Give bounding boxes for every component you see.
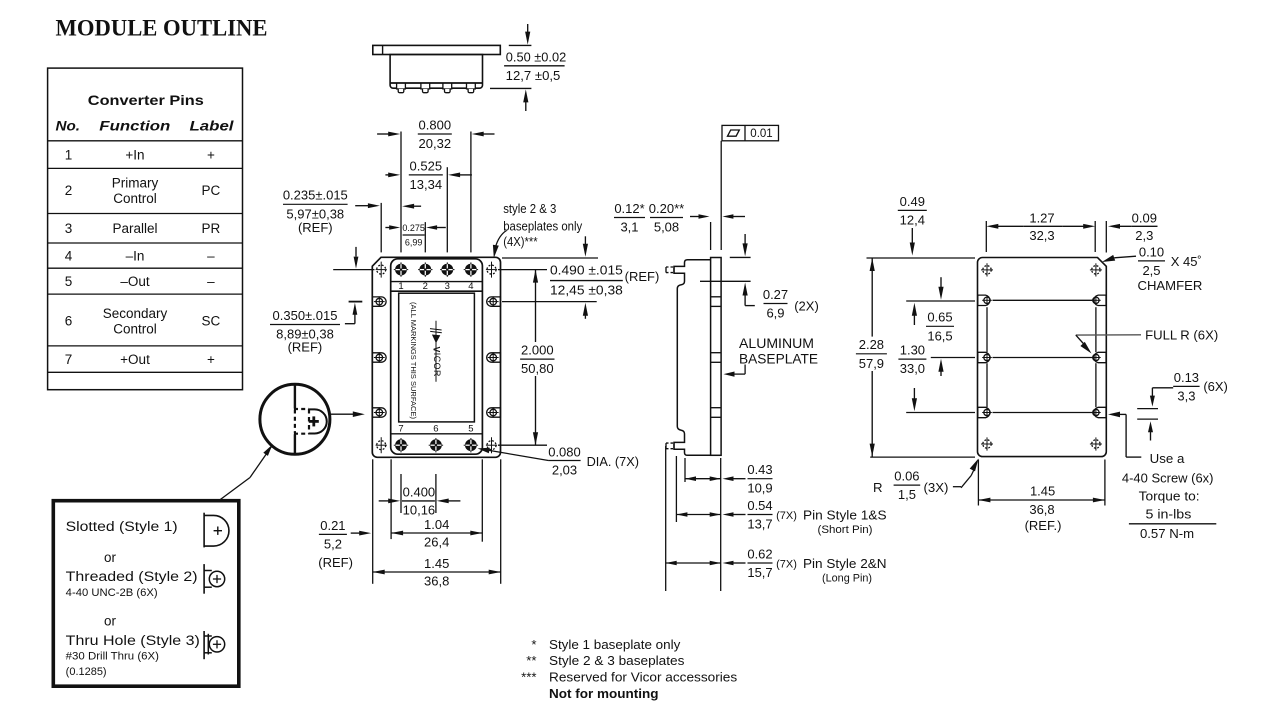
svg-text:(4X)***: (4X)*** [503,234,538,249]
dimension 0.62/15,7 long pin length [666,546,773,580]
svg-text:16,5: 16,5 [927,328,952,343]
svg-text:–In: –In [126,248,145,263]
svg-text:Style 2 & 3 baseplates: Style 2 & 3 baseplates [549,653,685,668]
svg-text:SC: SC [202,314,221,329]
threaded style icon [204,564,225,594]
dimension 1.45/36,8 flange width [373,556,501,589]
svg-text:0.49: 0.49 [900,194,925,209]
plate slot left row3 [978,407,992,417]
svg-text:1.27: 1.27 [1029,211,1054,226]
svg-text:5,08: 5,08 [654,220,679,235]
witness lines above plate [986,221,1106,253]
svg-text:0.490 ±.015: 0.490 ±.015 [550,262,623,277]
label text ALL MARKINGS THIS SURFACE [409,302,416,419]
top profile view module body [390,55,482,89]
footnote ** style 2 & 3 baseplates [526,653,685,668]
svg-text:–: – [207,248,215,263]
svg-text:CHAMFER: CHAMFER [1138,278,1203,293]
svg-text:6: 6 [433,423,438,434]
svg-text:ALUMINUM: ALUMINUM [739,336,814,351]
svg-text:5: 5 [65,274,73,289]
datum extension line from flatness frame [720,141,722,250]
svg-text:(Long Pin): (Long Pin) [822,572,872,584]
svg-text:BASEPLATE: BASEPLATE [739,351,818,366]
svg-text:13,34: 13,34 [410,177,443,192]
front view module body outline [391,259,483,454]
svg-text:PR: PR [202,221,221,236]
dimension 1.30/33,0 slot row span [898,303,926,412]
front view flange plate outline [372,257,500,457]
dimension 0.21/5,2 (REF) [318,518,371,570]
dimension 0.65/16,5 slot row pitch [926,277,954,376]
svg-text:0.43: 0.43 [747,462,772,477]
svg-text:3: 3 [65,221,73,236]
mounting slot left row1 [372,296,386,306]
svg-text:50,80: 50,80 [521,361,554,376]
dimension 0.350 +/-.015 (REF) [270,302,362,355]
svg-text:R: R [873,480,883,495]
pin 2 [418,262,432,276]
svg-text:or: or [104,550,116,565]
svg-text:+Out: +Out [120,352,150,367]
svg-text:(REF): (REF) [298,220,333,235]
svg-text:0.080: 0.080 [548,444,581,459]
svg-text:0.01: 0.01 [750,128,772,140]
dimension 0.490 +/-.015 (REF) [502,236,659,318]
svg-text:5 in-lbs: 5 in-lbs [1146,507,1192,522]
corner mounting hole bottom-right (style 2&3) [486,437,497,453]
svg-text:0.21: 0.21 [320,518,345,533]
leader arrow from style box to detail circle [219,445,273,501]
mounting slot right row2 [487,352,501,362]
svg-text:(7X): (7X) [776,558,797,570]
dimension 0.800/20,32 pin span [377,117,494,151]
label Pin Style 2&N Long Pin [776,556,886,584]
svg-text:Threaded (Style 2): Threaded (Style 2) [66,569,198,584]
dimension 0.09/2,3 edge to hole [1108,211,1158,243]
svg-text:3,3: 3,3 [1177,388,1195,403]
svg-text:MODULE OUTLINE: MODULE OUTLINE [56,16,268,41]
svg-text:2,5: 2,5 [1142,263,1160,278]
note R 0.06/1,5 3X corner radius [873,459,978,503]
dimension 0.235 +/-.015 (REF) [283,188,421,235]
svg-text:2: 2 [423,281,428,292]
plate slot left row1 [978,295,992,305]
plate slot right row3 [1091,407,1106,417]
svg-text:1,5: 1,5 [898,487,916,502]
svg-text:1: 1 [65,147,73,162]
dimension 0.27/6,9 2X [700,234,819,321]
chamfer note 0.10/2,5 X 45 [1102,244,1202,293]
plate slot right row2 [1091,352,1106,362]
witness lines below plate [978,460,1105,506]
pin 3 [440,262,454,276]
svg-text:13,7: 13,7 [747,517,772,532]
dimension 0.50 +/-0.02 module height [490,24,566,111]
svg-text:3,1: 3,1 [620,220,638,235]
dimension 0.20**/5,08 style2-3 baseplate thickness [649,201,745,235]
dimension 0.13/3,3 6X slot width [1137,370,1228,441]
svg-text:0.525: 0.525 [410,158,443,173]
pin 4 [464,262,478,276]
svg-text:0.54: 0.54 [747,498,772,513]
svg-text:or: or [104,614,116,629]
mounting slot left row2 [372,352,386,362]
side view module body outline [674,260,711,456]
svg-text:2.28: 2.28 [859,337,884,352]
plate bottom edge extension line [870,456,975,458]
svg-text:12,4: 12,4 [900,212,925,227]
svg-text:2.000: 2.000 [521,343,554,358]
svg-text:Pin Style 1&S: Pin Style 1&S [803,508,887,523]
svg-text:PC: PC [202,183,221,198]
svg-text:0.09: 0.09 [1132,211,1157,226]
leader arrow from detail circle to left slot [330,411,365,417]
label Thru Hole (Style 3) #30 Drill Thru (6X) (0.1285) [66,633,200,678]
baseplate slot marks row1 [711,297,722,307]
svg-text:–Out: –Out [120,274,150,289]
side view short pin bottom hidden tip [666,443,674,449]
svg-text:0.50 ±0.02: 0.50 ±0.02 [506,50,566,65]
svg-text:(3X): (3X) [924,480,949,495]
svg-text:0.13: 0.13 [1174,370,1199,385]
svg-text:0.10: 0.10 [1139,244,1164,259]
svg-text:33,0: 33,0 [900,361,925,376]
svg-text:57,9: 57,9 [859,356,884,371]
dimension 0.43/10,9 body to mounting face [685,462,773,496]
svg-text:0.57 N-m: 0.57 N-m [1140,526,1194,541]
svg-text:7: 7 [398,423,403,434]
leader FULL R 6X [1076,327,1218,353]
top profile view baseplate plank [373,45,501,54]
svg-text:0.12*: 0.12* [614,201,644,216]
dimension 0.275/6,99 [385,223,445,248]
svg-text:(7X): (7X) [776,510,797,522]
pin 1 [394,262,408,276]
plate top edge extension line [867,257,976,259]
corner hole centerline extension left [333,247,374,270]
dimension 0.49/12,4 top edge to slot row1 [898,194,927,256]
svg-text:+: + [207,352,215,367]
label Pin Style 1&S Short Pin [776,508,887,536]
svg-text:10,9: 10,9 [747,481,772,496]
svg-text:15,7: 15,7 [747,565,772,580]
svg-text:No.: No. [56,118,81,134]
svg-text:#30 Drill Thru (6X): #30 Drill Thru (6X) [66,651,159,663]
dimension 0.54/13,7 short pin length [676,498,772,532]
plate slot right row1 [1091,295,1106,305]
plate slot column connector lines [987,307,1096,407]
svg-text:1.45: 1.45 [1030,484,1055,499]
svg-text:Torque to:: Torque to: [1139,489,1200,504]
pin numbers 1 2 3 4 [398,281,473,292]
svg-text:10,16: 10,16 [403,502,436,517]
note style 2&3 baseplates only 4X [493,201,583,258]
svg-text:5,97±0,38: 5,97±0,38 [286,206,344,221]
label or (2) [104,614,116,629]
svg-text:Style 1 baseplate only: Style 1 baseplate only [549,637,681,652]
corner mounting hole bottom-left (style 2&3) [376,437,387,453]
svg-text:Control: Control [113,191,157,206]
svg-text:1.04: 1.04 [424,517,449,532]
dimension 2.000/50,80 pin row span [498,270,555,446]
dimension 1.45/36,8 REF plate width [978,484,1105,534]
svg-text:Secondary: Secondary [103,306,168,321]
pin 7 [394,438,408,452]
svg-text:(6X): (6X) [1203,379,1228,394]
svg-text:Slotted (Style 1): Slotted (Style 1) [66,519,178,534]
witness lines below front view [373,459,501,584]
corner mounting hole top-right (style 2&3) [486,262,497,278]
svg-text:baseplates only: baseplates only [503,218,583,233]
label or (1) [104,550,116,565]
baseplate bottom view outline with chamfer [978,258,1107,457]
svg-text:32,3: 32,3 [1029,228,1054,243]
svg-text:5,2: 5,2 [324,536,342,551]
svg-text:1.30: 1.30 [900,343,925,358]
slot row2 extension line left [931,357,975,359]
plate corner hole top-right [1090,263,1102,276]
mounting slot left row3 [372,407,386,417]
svg-text:2,3: 2,3 [1135,228,1153,243]
svg-text:3: 3 [445,281,450,292]
front view marking label rectangle [399,293,475,422]
svg-text:1: 1 [398,281,403,292]
witness lines above front view [381,132,471,253]
svg-text:Thru Hole (Style 3): Thru Hole (Style 3) [66,633,200,648]
svg-text:***: *** [521,669,536,684]
svg-text:12,7 ±0,5: 12,7 ±0,5 [506,68,561,83]
plate slot row scribe lines [993,300,1093,412]
svg-text:6,99: 6,99 [405,238,423,248]
svg-text:Reserved for Vicor accessories: Reserved for Vicor accessories [549,669,738,684]
corner mounting hole top-left (style 2&3) [376,262,387,278]
dimension 2.28/57,9 plate height [856,258,887,457]
svg-text:20,32: 20,32 [419,136,452,151]
slotted style icon [204,513,229,548]
svg-text:0.350±.015: 0.350±.015 [273,308,338,323]
label Threaded (Style 2) 4-40 UNC-2B (6X) [66,569,198,599]
top profile view pins [397,83,476,93]
svg-text:(REF): (REF) [288,339,323,354]
pin style options box [53,501,239,687]
mounting slot right row3 [487,407,501,417]
svg-text:(ALL MARKINGS THIS SURFACE): (ALL MARKINGS THIS SURFACE) [409,302,416,419]
witness lines below side view [666,446,721,591]
footnote * style 1 baseplate only [531,637,680,652]
dimension 0.400/10,16 pin pitch [379,485,461,518]
svg-text:36,8: 36,8 [1029,502,1054,517]
svg-text:4-40 UNC-2B (6X): 4-40 UNC-2B (6X) [66,587,158,599]
baseplate slot marks row3 [711,408,722,418]
svg-text:(Short Pin): (Short Pin) [818,524,873,536]
front view pin header lines [391,282,482,434]
converter pins table [48,68,243,390]
slot detail circle [260,384,330,454]
svg-text:(REF.): (REF.) [1025,518,1062,533]
svg-text:Function: Function [99,118,170,134]
svg-text:Control: Control [113,322,157,337]
vicor logo rotated [430,321,442,382]
witness line baseplate left face upper [710,222,712,250]
svg-text:Converter Pins: Converter Pins [88,92,204,108]
thru hole style icon [204,631,225,659]
svg-text:6: 6 [65,314,73,329]
svg-text:12,45 ±0,38: 12,45 ±0,38 [550,283,623,298]
svg-text:Pin Style 2&N: Pin Style 2&N [803,556,887,571]
svg-text:V: V [432,347,442,353]
svg-text:Primary: Primary [112,175,159,190]
svg-text:(REF): (REF) [318,555,353,570]
svg-text:(2X): (2X) [794,299,819,314]
dimension 0.12*/3,1 style1 baseplate thickness [614,201,645,235]
drawing title MODULE OUTLINE [56,16,268,41]
flatness tolerance frame 0.01 [722,125,779,140]
svg-text:2,03: 2,03 [552,462,577,477]
svg-text:5: 5 [468,423,473,434]
note Use a 4-40 Screw torque [1122,451,1216,541]
footnote not for mounting [549,686,659,701]
svg-text:4: 4 [468,281,473,292]
svg-text:Not for mounting: Not for mounting [549,686,659,701]
svg-text:26,4: 26,4 [424,535,449,550]
pin 5 [464,438,478,452]
plate slot left row2 [978,352,992,362]
baseplate slot marks row2 [711,353,722,363]
svg-text:0.235±.015: 0.235±.015 [283,188,348,203]
dimension 0.525/13,34 [385,158,472,192]
svg-text:Label: Label [190,118,235,134]
side view short pin top hidden tip [666,267,674,273]
svg-text:4: 4 [65,248,73,263]
svg-text:+: + [207,147,215,162]
slot row3 extension line left [906,412,975,414]
svg-text:FULL R (6X): FULL R (6X) [1145,327,1218,342]
svg-text:0.20**: 0.20** [649,201,684,216]
svg-text:**: ** [526,653,536,668]
svg-text:0.62: 0.62 [747,546,772,561]
plate corner hole bottom-right [1090,437,1102,450]
pin numbers 7 6 5 [398,423,473,434]
svg-text:*: * [531,637,536,652]
dimension 1.04/26,4 body width [391,517,482,550]
svg-text:X 45˚: X 45˚ [1171,254,1202,269]
side view aluminum baseplate slab [711,258,722,456]
svg-text:Parallel: Parallel [112,221,157,236]
svg-text:ICOR: ICOR [432,353,442,377]
dimension 1.27/32,3 slot column span [986,211,1095,243]
slot row1 extension line left [906,300,975,302]
dimension 0.080/2,03 DIA 7X pin diameter [478,444,640,477]
svg-text:4-40 Screw (6x): 4-40 Screw (6x) [1122,471,1214,486]
svg-text:0.400: 0.400 [403,485,436,500]
svg-text:–: – [207,274,215,289]
label ALUMINUM BASEPLATE [724,336,819,377]
svg-text:6,9: 6,9 [766,306,784,321]
svg-text:1.45: 1.45 [424,556,449,571]
svg-text:0.27: 0.27 [763,287,788,302]
svg-text:0.800: 0.800 [419,117,452,132]
svg-text:style 2 & 3: style 2 & 3 [503,201,556,216]
label Slotted (Style 1) [66,519,178,534]
svg-text:2: 2 [65,183,73,198]
svg-text:7: 7 [65,352,73,367]
svg-text:0.06: 0.06 [894,469,919,484]
svg-text:36,8: 36,8 [424,574,449,589]
plate corner hole top-left [981,263,993,276]
svg-text:+In: +In [125,147,144,162]
leader Use a 4-40 Screw note [1108,412,1141,458]
svg-text:0.65: 0.65 [927,310,952,325]
svg-text:Use a: Use a [1150,451,1185,466]
mounting slot right row1 [487,296,501,306]
svg-text:0.275: 0.275 [402,223,425,233]
pin 6 [429,438,443,452]
plate corner hole bottom-left [981,437,993,450]
footnote *** reserved for vicor accessories [521,669,738,684]
svg-text:(0.1285): (0.1285) [66,666,107,678]
svg-text:(REF): (REF) [625,269,660,284]
svg-text:DIA. (7X): DIA. (7X) [587,454,639,469]
